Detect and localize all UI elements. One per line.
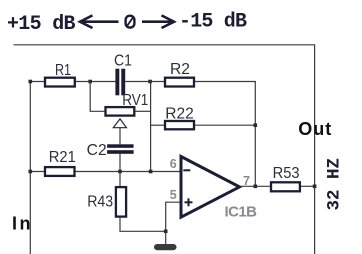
wire R43 bottom to ground node (120, 218, 166, 232)
svg-text:R1: R1 (55, 62, 71, 79)
node junction feedback (149, 170, 153, 174)
wire C1 right to R2 (125, 81, 164, 83)
node junction C2 bottom (118, 170, 122, 174)
node junction output (254, 185, 258, 189)
node junction R2/R22 (254, 123, 258, 127)
resistor R1 (45, 62, 75, 87)
ground (154, 244, 177, 250)
node junction left of R21 (29, 170, 33, 174)
wire R22 left stub (151, 124, 164, 126)
svg-text:R22: R22 (165, 105, 194, 122)
node junction left of R1 (29, 80, 33, 84)
svg-text:R2: R2 (170, 61, 190, 78)
node junction right of R1 (88, 80, 92, 84)
node junction out rail (313, 185, 317, 189)
wire C2 bottom stub (119, 154, 121, 172)
wire RV1 left branch (90, 82, 104, 112)
resistor R43 (87, 187, 126, 217)
svg-text:R53: R53 (273, 165, 300, 182)
right arrow (142, 15, 174, 28)
wire output net (240, 185, 270, 187)
svg-text:C1: C1 (114, 52, 132, 69)
op-amp IC1B (181, 157, 240, 218)
svg-text:IC1B: IC1B (225, 204, 258, 221)
wire R53 right stub (301, 185, 315, 187)
resistor R53 (271, 165, 300, 191)
RV1 wiper arrow (113, 119, 126, 144)
svg-text:R43: R43 (87, 194, 113, 211)
resistor R22 (165, 105, 194, 129)
wire R2 right, down to output junction (195, 82, 255, 187)
wire inverting input net (30, 171, 181, 173)
capacitor C2 (87, 142, 134, 159)
wire left input rail (29, 82, 31, 254)
node junction ground (164, 230, 168, 234)
svg-text:In: In (12, 213, 31, 233)
wire main top net (30, 81, 115, 83)
svg-text:Out: Out (298, 119, 331, 139)
label 0 (slashed zero) (126, 16, 135, 28)
svg-text:-15 dB: -15 dB (179, 10, 247, 33)
wire non-inverting input net (166, 202, 181, 231)
wire RV1 right branch (135, 110, 150, 112)
left arrow (80, 15, 119, 28)
svg-text:+15 dB: +15 dB (7, 13, 76, 36)
wire R43 top stub (119, 172, 121, 187)
svg-text:32 HZ: 32 HZ (325, 158, 345, 211)
capacitor C1 (114, 52, 132, 95)
svg-text:6: 6 (170, 157, 177, 171)
resistor R21 (45, 149, 76, 176)
wire ground stem (165, 231, 167, 244)
svg-text:C2: C2 (87, 142, 107, 159)
wire vertical feedback net (150, 82, 152, 172)
svg-text:5: 5 (170, 188, 177, 202)
wire top border rail (14, 45, 315, 254)
wire R22 right stub (195, 124, 255, 126)
svg-text:R21: R21 (49, 149, 76, 166)
resistor R2 (165, 61, 194, 87)
node junction right of C1 (148, 80, 152, 84)
potentiometer RV1 (106, 92, 149, 116)
svg-text:RV1: RV1 (122, 92, 148, 109)
